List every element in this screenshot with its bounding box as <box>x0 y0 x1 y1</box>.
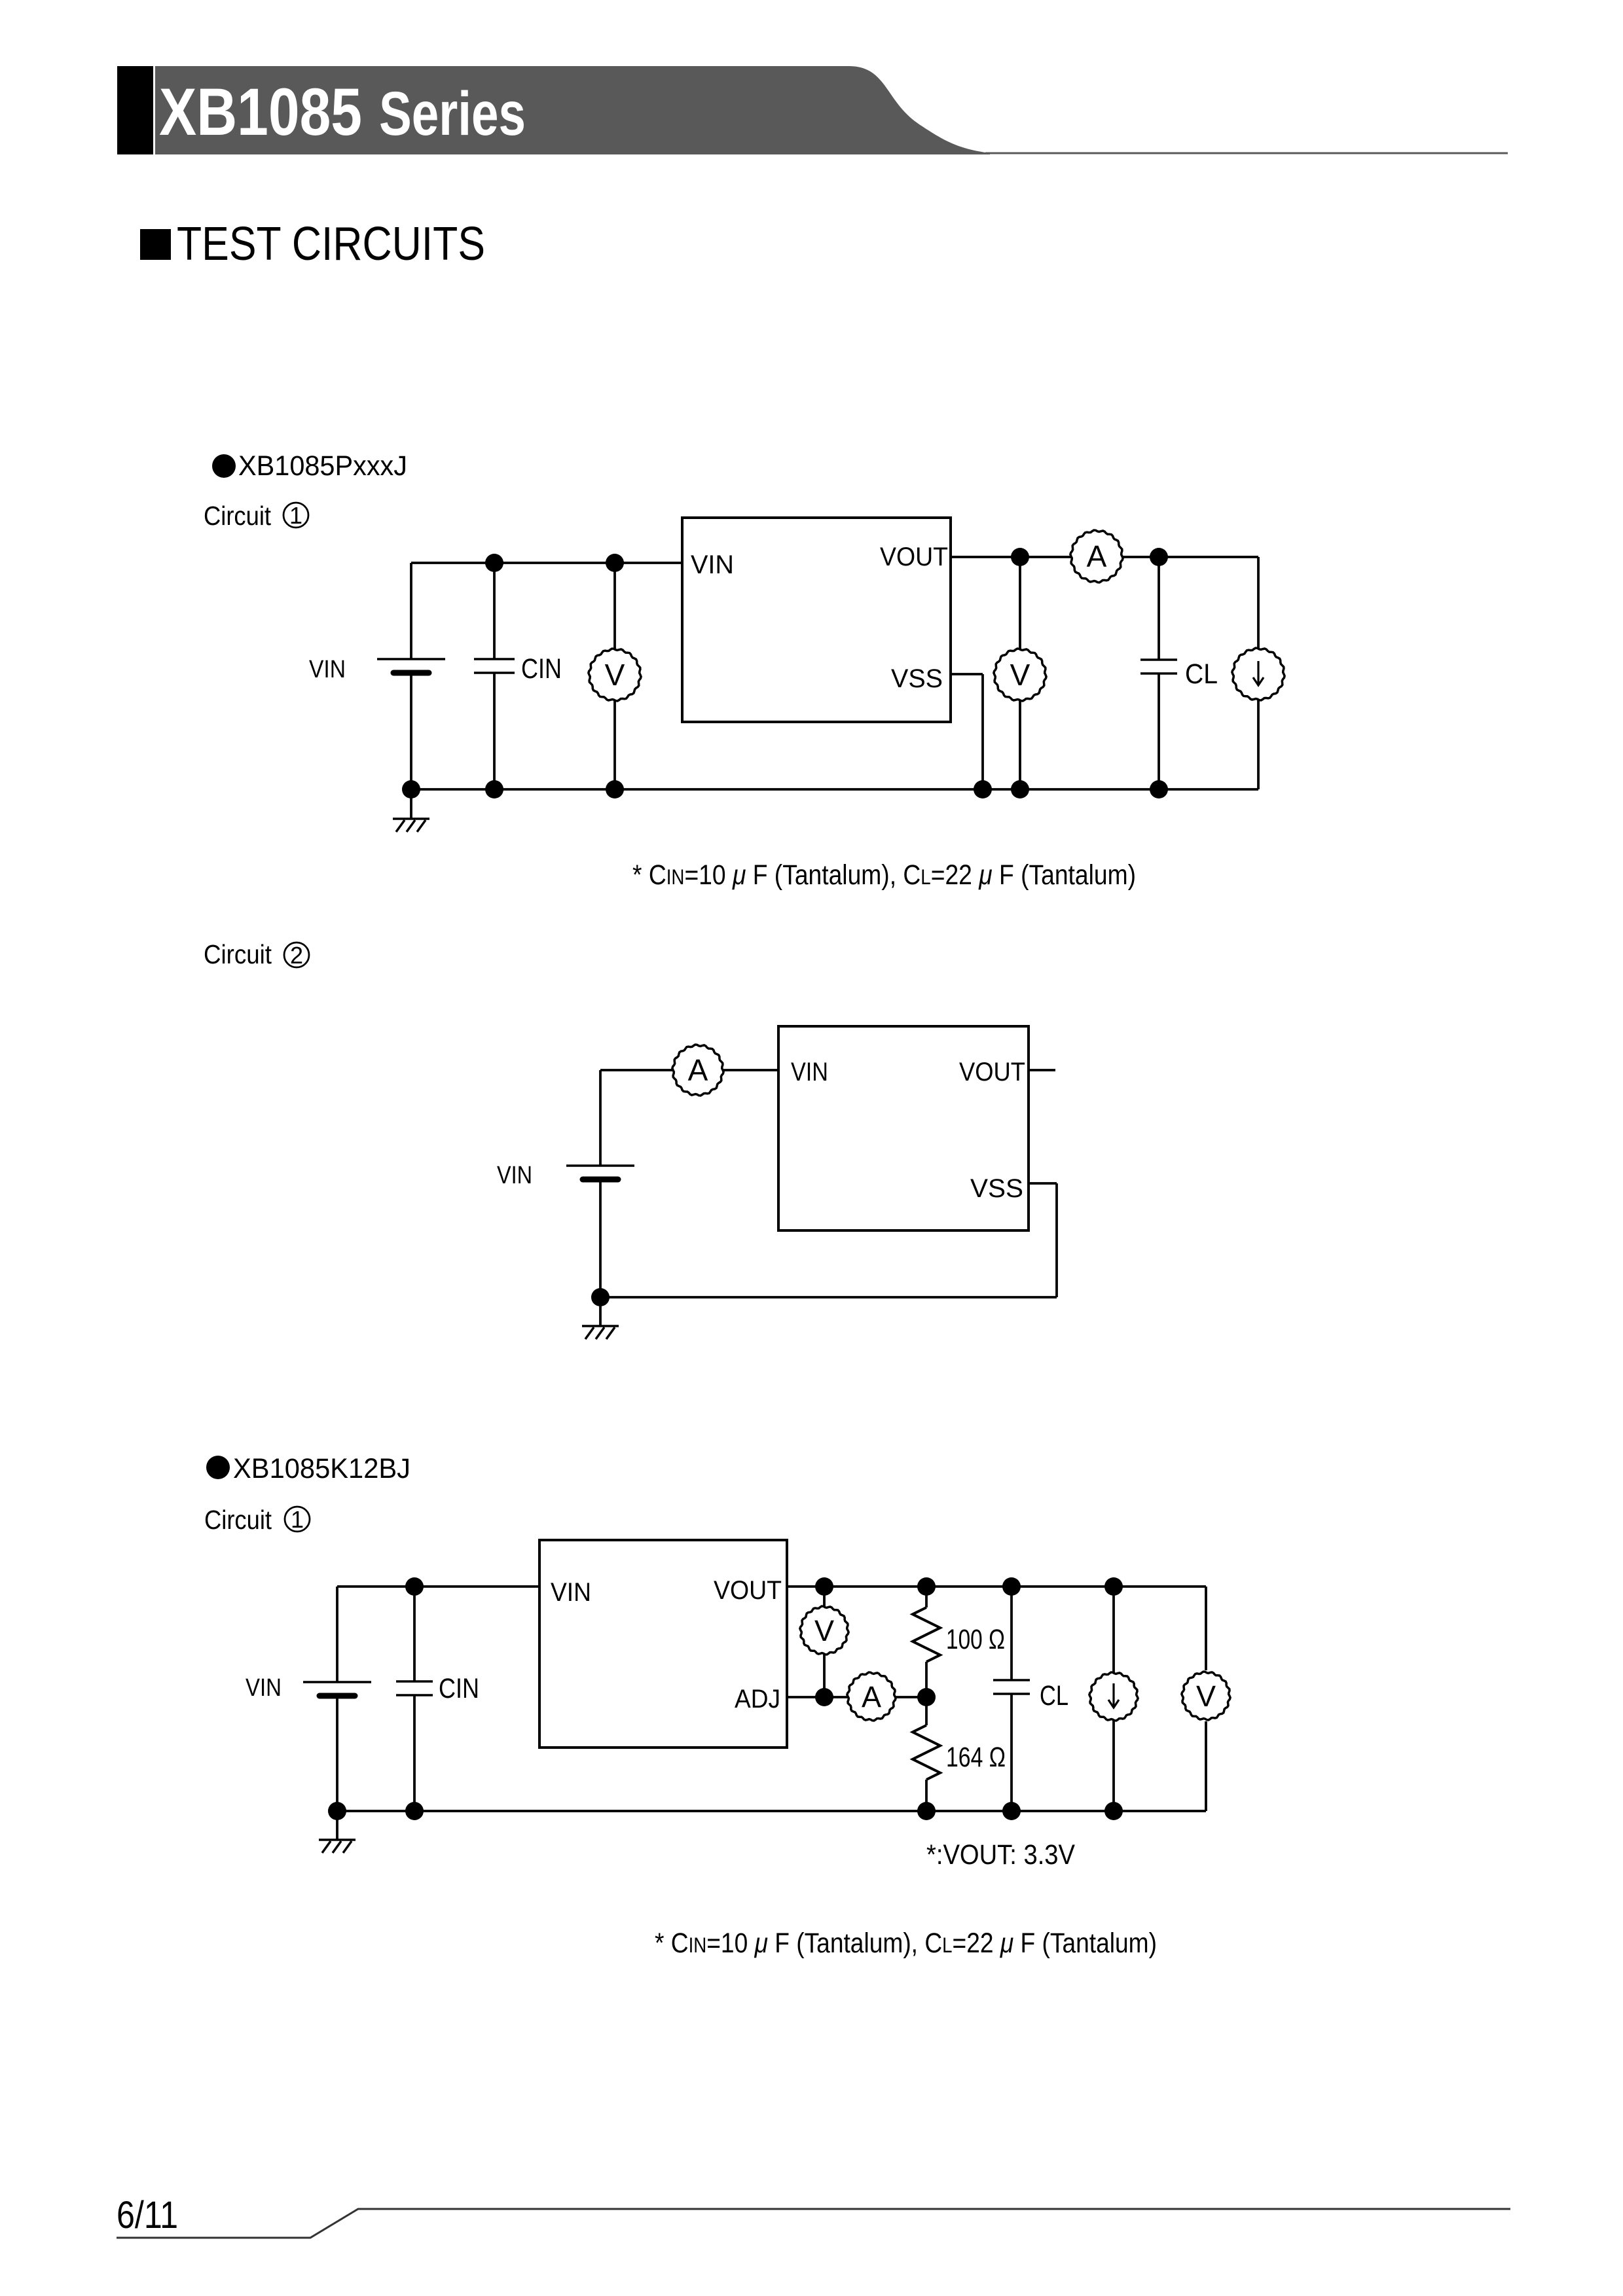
wire c1 VSS down <box>981 674 984 789</box>
wire c1 CL top lead <box>1158 557 1160 660</box>
wire c3 CL bottom lead <box>1010 1694 1013 1811</box>
current source c1 <box>1232 648 1285 700</box>
wire c1 CL bottom lead <box>1158 673 1160 789</box>
IC U1 box c1 <box>682 518 951 722</box>
header banner <box>155 66 990 154</box>
wire c1 VSS stub <box>951 673 983 675</box>
voltmeter V c3 <box>800 1606 848 1655</box>
wire c3 CL top lead <box>1010 1587 1013 1680</box>
wire c2 right down <box>1055 1183 1058 1297</box>
footer rule <box>117 2209 1510 2238</box>
wire c2 VOUT stub <box>1029 1069 1055 1071</box>
ground c3 <box>319 1840 356 1853</box>
voltmeter V right c3 <box>1182 1672 1230 1720</box>
svg-text:Circuit: Circuit <box>204 939 272 969</box>
svg-text:CL: CL <box>1185 658 1218 690</box>
bullet for XB1085K12BJ <box>206 1456 230 1479</box>
junction dot <box>591 1288 610 1306</box>
current source c3 <box>1089 1672 1138 1721</box>
svg-text:CIN: CIN <box>439 1673 479 1704</box>
svg-text:XB1085K12BJ: XB1085K12BJ <box>233 1453 410 1484</box>
wire c2 top rail <box>600 1069 778 1071</box>
wire c3 CIN top lead <box>413 1587 416 1681</box>
junction dot <box>917 1802 936 1820</box>
wire c3 top rail <box>337 1585 539 1588</box>
svg-text:VOUT: VOUT <box>714 1576 782 1605</box>
wire c2 battery top lead <box>599 1070 602 1166</box>
svg-text:ADJ: ADJ <box>735 1685 780 1713</box>
capacitor CIN c3 <box>396 1681 433 1695</box>
svg-text:V: V <box>814 1614 834 1647</box>
wire c3 ground stem <box>336 1811 338 1840</box>
junction dot <box>606 554 624 572</box>
circled digit 2 <box>284 942 309 969</box>
junction dot <box>405 1802 424 1820</box>
wire c1 top rail <box>411 562 682 564</box>
wire c1 voltmeter branch <box>613 563 616 789</box>
resistor 100ohm c3 <box>913 1607 940 1662</box>
svg-text:164 Ω: 164 Ω <box>946 1742 1006 1773</box>
note capacitor values 2 <box>655 1928 1157 1959</box>
wire c2 ground stem <box>599 1297 602 1326</box>
junction dot <box>1150 548 1168 566</box>
junction dot <box>974 780 992 798</box>
junction dot <box>1002 1802 1021 1820</box>
svg-text:6/11: 6/11 <box>117 2194 178 2236</box>
header black block <box>117 66 153 154</box>
wire c1 right edge <box>1257 557 1260 789</box>
wire c1 ground stem <box>410 789 412 819</box>
wire c1 voltmeter2 branch <box>1019 557 1021 789</box>
wire c3 R1 top lead <box>925 1587 928 1607</box>
wire c1 battery top lead <box>410 563 412 659</box>
junction dot <box>815 1688 833 1706</box>
svg-text:Circuit: Circuit <box>204 1505 272 1535</box>
wire c1 bottom rail <box>411 788 1258 791</box>
wire c1 battery bottom lead <box>410 673 412 789</box>
capacitor CL c1 <box>1140 660 1177 673</box>
junction dot <box>1011 780 1029 798</box>
ground c2 <box>582 1326 619 1339</box>
svg-text:A: A <box>688 1053 708 1087</box>
wire c3 bottom rail <box>337 1810 1206 1812</box>
circled digit 1 <box>283 502 308 529</box>
junction dot <box>328 1802 346 1820</box>
svg-text:VOUT: VOUT <box>880 543 948 571</box>
svg-text:100 Ω: 100 Ω <box>946 1624 1005 1655</box>
svg-text:VIN: VIN <box>246 1674 282 1702</box>
svg-text:V: V <box>1010 658 1030 692</box>
junction dot <box>1011 548 1029 566</box>
wire c3 R2 bottom lead <box>925 1780 928 1811</box>
svg-text:CIN: CIN <box>521 653 562 685</box>
svg-text:VSS: VSS <box>891 664 943 693</box>
svg-text:CL: CL <box>1040 1680 1068 1712</box>
wire c3 battery top lead <box>336 1587 338 1682</box>
wire c2 battery bottom lead <box>599 1180 602 1297</box>
wire c3 R1 bottom lead <box>925 1662 928 1697</box>
junction dot <box>405 1577 424 1596</box>
wire c2 VSS stub <box>1029 1182 1057 1185</box>
svg-text:Circuit: Circuit <box>204 501 272 531</box>
IC U3 box c3 <box>539 1540 787 1748</box>
junction dot <box>402 780 420 798</box>
circled digit 1 second <box>285 1506 310 1533</box>
bullet for XB1085PxxxJ <box>212 454 236 478</box>
wire c2 bottom rail <box>600 1296 1057 1299</box>
capacitor CL c3 <box>993 1680 1030 1694</box>
ground c1 <box>393 819 429 832</box>
ammeter A c2 <box>672 1045 723 1096</box>
svg-text:VOUT: VOUT <box>959 1058 1025 1086</box>
junction dot <box>485 780 503 798</box>
svg-text:VIN: VIN <box>309 656 346 683</box>
svg-text:VSS: VSS <box>970 1174 1023 1203</box>
svg-text:1: 1 <box>291 1506 304 1533</box>
junction dot <box>917 1577 936 1596</box>
svg-text:V: V <box>1196 1679 1216 1713</box>
voltmeter V2 c1 <box>994 649 1046 701</box>
svg-text:1: 1 <box>289 502 302 529</box>
svg-text:VIN: VIN <box>691 550 734 579</box>
wire c3 R2 top lead <box>925 1697 928 1725</box>
svg-text:XB1085: XB1085 <box>159 75 362 149</box>
junction dot <box>485 554 503 572</box>
junction dot <box>1002 1577 1021 1596</box>
capacitor CIN c1 <box>474 659 515 673</box>
ammeter A c1 <box>1070 530 1123 583</box>
svg-text:VIN: VIN <box>497 1162 532 1189</box>
wire c3 CIN bottom lead <box>413 1695 416 1811</box>
svg-text:TEST CIRCUITS: TEST CIRCUITS <box>177 218 485 270</box>
wire c3 vout rail <box>787 1585 1206 1588</box>
wire c1 CIN top lead <box>493 563 496 659</box>
junction dot <box>815 1577 833 1596</box>
svg-text:A: A <box>862 1680 881 1713</box>
svg-text:XB1085PxxxJ: XB1085PxxxJ <box>238 450 407 482</box>
svg-text:2: 2 <box>290 942 303 969</box>
wire c3 voltmeter branch <box>823 1587 826 1697</box>
wire c3 isource branch <box>1112 1587 1115 1811</box>
svg-text:V: V <box>605 658 625 692</box>
resistor 164ohm c3 <box>913 1725 940 1780</box>
junction dot <box>1104 1802 1123 1820</box>
wire c3 ADJ wire <box>787 1696 926 1698</box>
wire c1 vout rail <box>951 556 1258 558</box>
junction dot <box>1150 780 1168 798</box>
note capacitor values 1 <box>632 859 1136 891</box>
svg-text:A: A <box>1087 539 1107 573</box>
IC U2 box c2 <box>778 1026 1029 1230</box>
svg-text:* CIN=10 μ F (Tantalum), CL=22: * CIN=10 μ F (Tantalum), CL=22 μ F (Tant… <box>655 1928 1157 1959</box>
svg-text:Series: Series <box>379 79 526 149</box>
wire c3 battery bottom lead <box>336 1696 338 1811</box>
svg-text:VIN: VIN <box>791 1058 828 1086</box>
battery VIN c1 <box>377 659 445 673</box>
ammeter A c3 <box>847 1672 896 1721</box>
junction dot <box>606 780 624 798</box>
voltmeter V1 c1 <box>589 649 641 701</box>
svg-text:*:VOUT: 3.3V: *:VOUT: 3.3V <box>926 1839 1075 1871</box>
wire c1 CIN bottom lead <box>493 673 496 789</box>
header thin rule <box>985 152 1508 154</box>
junction dot <box>917 1688 936 1706</box>
battery VIN c2 <box>566 1166 634 1179</box>
battery VIN c3 <box>303 1682 371 1696</box>
svg-text:VIN: VIN <box>551 1578 591 1607</box>
wire c3 right edge bottom <box>1205 1721 1207 1811</box>
svg-text:* CIN=10 μ F (Tantalum), CL=22: * CIN=10 μ F (Tantalum), CL=22 μ F (Tant… <box>632 859 1136 891</box>
wire c3 right edge top <box>1205 1587 1207 1670</box>
heading square bullet <box>140 229 171 260</box>
junction dot <box>1104 1577 1123 1596</box>
